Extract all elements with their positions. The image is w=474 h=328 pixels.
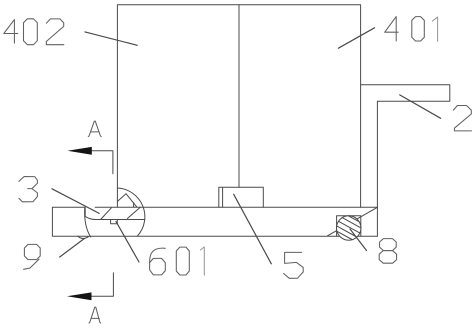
label 402: [4, 20, 18, 43]
label 601: [150, 248, 166, 275]
label 401: [385, 17, 399, 41]
roller 8 circle: [337, 216, 361, 240]
leader 402: [85, 32, 137, 45]
leader 9: [60, 239, 84, 257]
wheel right arc: [118, 188, 145, 236]
section line A top: [92, 151, 113, 174]
leader 5: [234, 194, 272, 263]
wheel diagonal left: [101, 208, 112, 220]
section line A bottom: [91, 273, 113, 297]
tab 9 bump: [78, 236, 89, 238]
blade left edge: [84, 208, 86, 217]
leader 2: [400, 95, 441, 118]
wheel tick: [133, 203, 135, 207]
label A bottom: [89, 307, 101, 323]
label 9: [24, 244, 41, 269]
label 8: [380, 239, 397, 251]
roller diagonal brace: [328, 207, 378, 236]
label 5: [284, 252, 304, 278]
nut 601: [111, 220, 118, 224]
divider wall between 402 and 401: [238, 5, 240, 188]
tank box 401/402 outline: [117, 5, 360, 208]
roller pocket: [337, 216, 361, 237]
wheel left arc: [85, 208, 91, 237]
leader 601: [116, 222, 139, 263]
support post: [376, 101, 378, 236]
base platform: [52, 207, 377, 236]
section arrow A top: [67, 147, 91, 155]
wheel diagonal right: [128, 207, 141, 218]
block 5: [219, 187, 263, 207]
leader 3: [52, 189, 99, 214]
label 2: [453, 106, 471, 131]
label A top: [88, 121, 101, 136]
arm bracket 2: [361, 85, 450, 101]
blade bottom and wheel mid line: [85, 216, 145, 219]
wheel upper vee: [118, 194, 137, 207]
roller 8 hatching: [337, 216, 361, 240]
leader 401: [338, 28, 374, 48]
leader 8: [350, 229, 366, 250]
label 3: [19, 177, 38, 202]
section arrow A bottom: [67, 292, 92, 300]
